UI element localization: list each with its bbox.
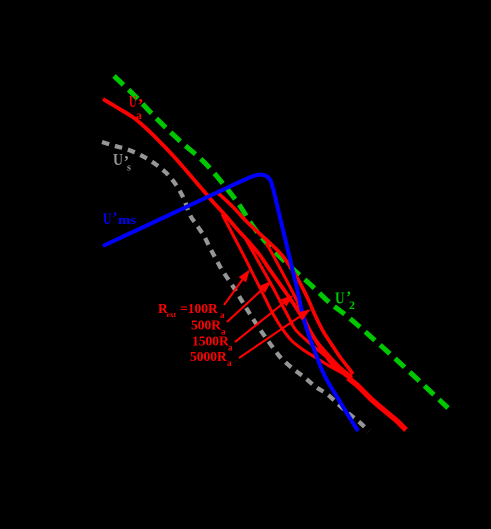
curve Rext=1500Ra — [266, 243, 352, 378]
curve U'ms blue — [103, 175, 358, 431]
svg-text:1500R: 1500R — [192, 334, 229, 349]
curve U'a red main — [103, 99, 360, 387]
curve Rext=5000Ra — [218, 193, 353, 374]
svg-text:s: s — [127, 163, 131, 174]
arrow to 5000Ra curve — [239, 316, 301, 358]
svg-text:500R: 500R — [191, 318, 221, 333]
curve Rext=500Ra — [244, 236, 352, 377]
svg-text:U: U — [335, 289, 345, 308]
arrow to 500Ra curve — [227, 289, 263, 322]
curve U'2 green dashed — [114, 76, 448, 408]
curve U's gray dashed — [102, 142, 369, 431]
svg-text:’: ’ — [113, 210, 118, 226]
svg-text:a: a — [227, 358, 232, 368]
svg-text:ms: ms — [118, 212, 136, 227]
svg-text:=100R: =100R — [180, 301, 218, 316]
svg-text:ext: ext — [167, 310, 177, 319]
svg-text:a: a — [136, 110, 142, 122]
arrow to 1500Ra curve — [235, 302, 284, 342]
curve Rext=100Ra — [222, 214, 344, 374]
svg-text:5000R: 5000R — [190, 349, 227, 364]
svg-text:a: a — [228, 343, 233, 353]
svg-text:U: U — [113, 150, 123, 169]
svg-text:U: U — [103, 211, 112, 228]
arrow to 100Ra curve — [224, 279, 243, 305]
svg-text:U: U — [129, 92, 137, 111]
red merged tail — [348, 378, 406, 430]
svg-text:2: 2 — [349, 298, 355, 312]
